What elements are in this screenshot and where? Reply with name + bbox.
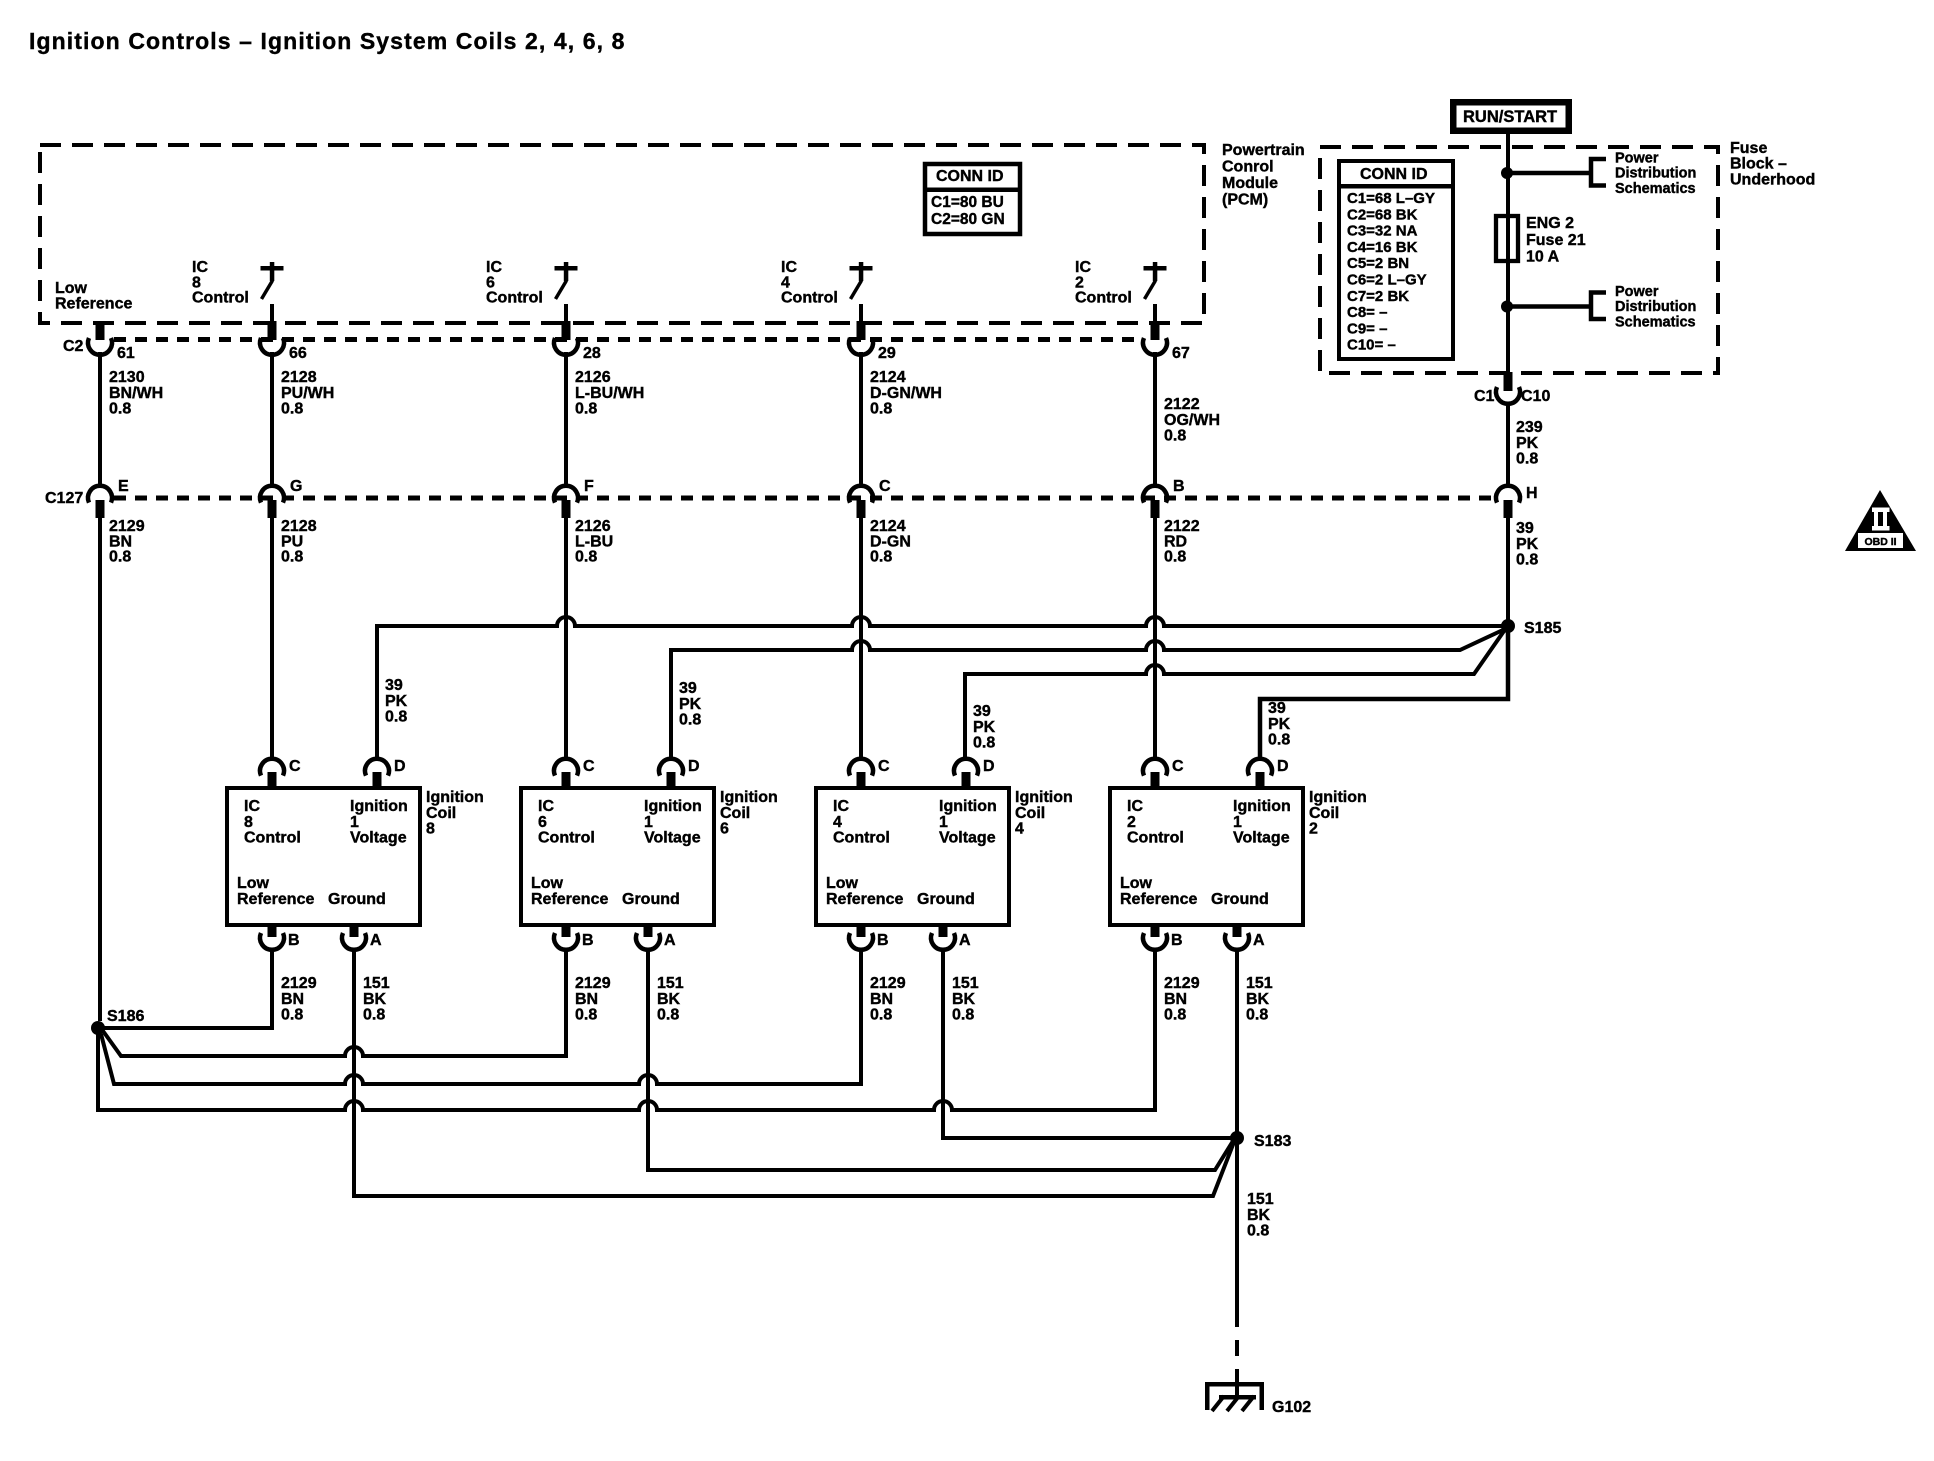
wire 39 PK to coil 6 D — [671, 629, 1505, 760]
svg-text:Control: Control — [244, 830, 301, 847]
svg-text:PK: PK — [1268, 716, 1291, 733]
svg-text:1: 1 — [1233, 814, 1242, 831]
svg-text:C2=80 GN: C2=80 GN — [931, 211, 1005, 228]
svg-text:Ground: Ground — [328, 891, 386, 908]
svg-text:CONN ID: CONN ID — [936, 168, 1004, 185]
svg-text:Ground: Ground — [622, 891, 680, 908]
svg-text:39: 39 — [973, 703, 991, 720]
svg-text:IC: IC — [833, 798, 849, 815]
svg-text:Power: Power — [1615, 151, 1659, 167]
wire — [1507, 304, 1589, 309]
svg-text:Reference: Reference — [55, 296, 132, 313]
svg-text:Control: Control — [538, 830, 595, 847]
svg-text:0.8: 0.8 — [1516, 552, 1538, 569]
svg-text:28: 28 — [583, 345, 601, 362]
svg-text:151: 151 — [363, 975, 390, 992]
svg-text:Low: Low — [237, 875, 270, 892]
svg-text:C: C — [1172, 758, 1184, 775]
svg-text:Distribution: Distribution — [1615, 166, 1696, 182]
svg-text:Module: Module — [1222, 175, 1278, 192]
ignition coil 8 box — [227, 788, 420, 925]
wire 2122 OG/WH 0.8 — [1153, 352, 1157, 487]
svg-text:C9= –: C9= – — [1347, 320, 1387, 337]
svg-text:PU/WH: PU/WH — [281, 385, 334, 402]
PCM module dashed outline — [40, 145, 1204, 323]
svg-text:S185: S185 — [1524, 620, 1561, 637]
svg-text:Coil: Coil — [720, 805, 750, 822]
svg-text:Control: Control — [192, 290, 249, 307]
svg-text:PK: PK — [679, 696, 702, 713]
svg-text:F: F — [584, 478, 594, 495]
svg-text:Ignition: Ignition — [1309, 789, 1367, 806]
pin D (coil 4) — [954, 759, 978, 776]
wire 2122 RD 0.8 — [1153, 518, 1157, 760]
svg-text:C3=32 NA: C3=32 NA — [1347, 223, 1418, 240]
svg-text:2128: 2128 — [281, 369, 317, 386]
svg-text:B: B — [288, 932, 300, 949]
svg-text:Low: Low — [55, 280, 88, 297]
wire 239 PK 0.8 — [1506, 402, 1510, 487]
svg-text:Reference: Reference — [1120, 891, 1197, 908]
connector C2 row — [114, 337, 1143, 342]
svg-text:Ignition: Ignition — [720, 789, 778, 806]
svg-text:IC: IC — [1127, 798, 1143, 815]
svg-text:(PCM): (PCM) — [1222, 192, 1268, 209]
svg-text:39: 39 — [385, 677, 403, 694]
svg-text:151: 151 — [657, 975, 684, 992]
pin A (coil 2) — [1233, 924, 1242, 937]
svg-text:Ground: Ground — [917, 891, 975, 908]
svg-text:A: A — [370, 932, 382, 949]
svg-text:0.8: 0.8 — [1164, 1007, 1186, 1024]
svg-text:D: D — [688, 758, 700, 775]
OBD II marker — [1845, 490, 1916, 551]
svg-text:Reference: Reference — [826, 891, 903, 908]
svg-text:0.8: 0.8 — [870, 401, 892, 418]
junction — [1501, 301, 1513, 313]
wire 2129 BN 0.8 — [98, 518, 102, 1021]
svg-text:A: A — [959, 932, 971, 949]
svg-text:Block –: Block – — [1730, 156, 1787, 173]
svg-text:C4=16 BK: C4=16 BK — [1347, 239, 1418, 256]
pin E (C127) — [88, 486, 112, 503]
svg-text:Voltage: Voltage — [350, 830, 407, 847]
svg-text:2129: 2129 — [870, 975, 906, 992]
pin B (coil 6) — [562, 924, 571, 937]
svg-text:Control: Control — [833, 830, 890, 847]
svg-text:Schematics: Schematics — [1615, 314, 1696, 330]
svg-text:Ignition: Ignition — [939, 798, 997, 815]
svg-text:4: 4 — [1015, 821, 1024, 838]
svg-text:0.8: 0.8 — [973, 735, 995, 752]
wire ground from coil 2 A — [1235, 948, 1239, 1327]
pin G (C127) — [260, 486, 284, 503]
svg-text:C6=2 L–GY: C6=2 L–GY — [1347, 272, 1427, 289]
svg-text:0.8: 0.8 — [870, 549, 892, 566]
svg-text:S186: S186 — [107, 1008, 144, 1025]
svg-text:RUN/START: RUN/START — [1463, 108, 1557, 126]
svg-text:Powertrain: Powertrain — [1222, 142, 1305, 159]
svg-text:C127: C127 — [45, 490, 83, 507]
svg-text:Ignition: Ignition — [644, 798, 702, 815]
svg-text:C10: C10 — [1521, 388, 1550, 405]
wire 2128 PU 0.8 — [270, 518, 274, 760]
wire 39 PK to coil 8 D — [377, 617, 1508, 760]
svg-text:4: 4 — [833, 814, 842, 831]
svg-text:2122: 2122 — [1164, 396, 1200, 413]
svg-text:0.8: 0.8 — [575, 401, 597, 418]
wire ground from coil 4 A — [943, 948, 1237, 1138]
wire low reference to coil 6 B — [103, 948, 566, 1056]
svg-text:0.8: 0.8 — [281, 401, 303, 418]
svg-text:39: 39 — [679, 680, 697, 697]
pin F (C127) — [554, 486, 578, 503]
svg-text:B: B — [1173, 478, 1185, 495]
fuse block dashed outline — [1320, 147, 1718, 373]
svg-text:67: 67 — [1172, 345, 1190, 362]
svg-text:IC: IC — [538, 798, 554, 815]
svg-text:Voltage: Voltage — [939, 830, 996, 847]
svg-text:0.8: 0.8 — [1516, 451, 1538, 468]
svg-text:BK: BK — [1247, 1207, 1271, 1224]
pin 28 (PCM C2) — [562, 321, 571, 340]
svg-text:D: D — [394, 758, 406, 775]
svg-text:0.8: 0.8 — [575, 1007, 597, 1024]
svg-text:C2: C2 — [63, 338, 84, 355]
pin B (coil 8) — [268, 924, 277, 937]
pin C (coil 4) — [849, 759, 873, 776]
wire ground from coil 8 A — [354, 948, 1234, 1196]
svg-text:0.8: 0.8 — [1246, 1007, 1268, 1024]
svg-text:G: G — [290, 478, 302, 495]
svg-text:PK: PK — [973, 719, 996, 736]
svg-text:BN/WH: BN/WH — [109, 385, 163, 402]
svg-text:0.8: 0.8 — [281, 1007, 303, 1024]
svg-text:C2=68 BK: C2=68 BK — [1347, 206, 1418, 223]
svg-text:B: B — [582, 932, 594, 949]
connector C1/C10 — [1504, 372, 1513, 391]
wire 2124 D-GN 0.8 — [859, 518, 863, 760]
svg-text:Reference: Reference — [531, 891, 608, 908]
connector C127 row — [114, 496, 1497, 501]
svg-text:B: B — [877, 932, 889, 949]
svg-text:39: 39 — [1268, 700, 1286, 717]
svg-text:H: H — [1526, 485, 1538, 502]
svg-text:C10= –: C10= – — [1347, 337, 1396, 354]
svg-text:2129: 2129 — [281, 975, 317, 992]
svg-text:8: 8 — [426, 821, 435, 838]
svg-text:S183: S183 — [1254, 1133, 1291, 1150]
svg-text:Reference: Reference — [237, 891, 314, 908]
wire — [1153, 304, 1157, 322]
svg-text:BK: BK — [952, 991, 976, 1008]
svg-text:2130: 2130 — [109, 369, 145, 386]
wire (harness break) — [1235, 1340, 1239, 1356]
svg-text:BK: BK — [363, 991, 387, 1008]
svg-text:Ignition: Ignition — [1015, 789, 1073, 806]
wire — [270, 304, 274, 322]
wire — [1507, 171, 1589, 176]
splice S185 — [1501, 619, 1515, 633]
svg-text:1: 1 — [939, 814, 948, 831]
svg-text:D-GN/WH: D-GN/WH — [870, 385, 942, 402]
svg-text:Ignition: Ignition — [350, 798, 408, 815]
svg-text:0.8: 0.8 — [363, 1007, 385, 1024]
pin D (coil 8) — [365, 759, 389, 776]
svg-text:Conrol: Conrol — [1222, 159, 1274, 176]
svg-text:PK: PK — [385, 693, 408, 710]
svg-text:2: 2 — [1309, 821, 1318, 838]
svg-text:Voltage: Voltage — [644, 830, 701, 847]
svg-text:Low: Low — [531, 875, 564, 892]
svg-text:Power: Power — [1615, 284, 1659, 300]
ground G102 — [1205, 1382, 1264, 1387]
splice S183 — [1230, 1131, 1244, 1145]
svg-text:2: 2 — [1127, 814, 1136, 831]
svg-text:2129: 2129 — [1164, 975, 1200, 992]
svg-text:E: E — [118, 478, 129, 495]
svg-text:0.8: 0.8 — [870, 1007, 892, 1024]
svg-text:0.8: 0.8 — [679, 712, 701, 729]
svg-text:Ignition Controls – Ignition S: Ignition Controls – Ignition System Coil… — [29, 28, 626, 54]
pin A (coil 8) — [350, 924, 359, 937]
svg-text:BN: BN — [1164, 991, 1187, 1008]
svg-text:Ignition: Ignition — [1233, 798, 1291, 815]
pin C (coil 8) — [260, 759, 284, 776]
svg-text:151: 151 — [1247, 1191, 1274, 1208]
svg-text:C7=2 BK: C7=2 BK — [1347, 288, 1409, 305]
svg-text:C: C — [583, 758, 595, 775]
off-page connector Power Distribution Schematics (upper) — [1591, 159, 1606, 186]
svg-text:151: 151 — [1246, 975, 1273, 992]
wire low reference to coil 4 B — [101, 948, 861, 1084]
svg-text:IC: IC — [244, 798, 260, 815]
wire RUN/START feed — [1506, 134, 1510, 372]
wire low reference to coil 8 B — [98, 948, 272, 1028]
svg-text:Control: Control — [1127, 830, 1184, 847]
svg-text:C: C — [289, 758, 301, 775]
svg-text:A: A — [1253, 932, 1265, 949]
svg-text:66: 66 — [289, 345, 307, 362]
svg-text:Low: Low — [1120, 875, 1153, 892]
pin A (coil 4) — [939, 924, 948, 937]
svg-text:6: 6 — [720, 821, 729, 838]
svg-text:Low: Low — [826, 875, 859, 892]
svg-text:BN: BN — [575, 991, 598, 1008]
pin D (coil 2) — [1248, 759, 1272, 776]
svg-text:8: 8 — [244, 814, 253, 831]
svg-text:239: 239 — [1516, 419, 1543, 436]
wire 2126 L-BU 0.8 — [564, 518, 568, 760]
svg-text:C1: C1 — [1474, 388, 1495, 405]
off-page connector Power Distribution Schematics (lower) — [1591, 293, 1606, 320]
ignition coil 2 box — [1110, 788, 1303, 925]
svg-text:2124: 2124 — [870, 369, 906, 386]
pin C (coil 2) — [1143, 759, 1167, 776]
svg-text:B: B — [1171, 932, 1183, 949]
svg-text:BK: BK — [657, 991, 681, 1008]
svg-text:ENG 2: ENG 2 — [1526, 215, 1574, 232]
svg-text:0.8: 0.8 — [109, 549, 131, 566]
svg-text:Distribution: Distribution — [1615, 299, 1696, 315]
wire — [564, 304, 568, 322]
svg-text:Fuse 21: Fuse 21 — [1526, 232, 1586, 249]
pin H (C127) — [1496, 486, 1520, 503]
svg-text:Coil: Coil — [1309, 805, 1339, 822]
PCM CONN ID table — [925, 164, 1020, 234]
svg-text:2129: 2129 — [575, 975, 611, 992]
svg-text:0.8: 0.8 — [385, 709, 407, 726]
wire 2130 BN/WH 0.8 — [98, 352, 102, 487]
svg-text:Control: Control — [486, 290, 543, 307]
svg-text:C5=2 BN: C5=2 BN — [1347, 255, 1409, 272]
svg-text:0.8: 0.8 — [952, 1007, 974, 1024]
svg-text:C1=80 BU: C1=80 BU — [931, 194, 1004, 211]
svg-text:Coil: Coil — [426, 805, 456, 822]
svg-text:Underhood: Underhood — [1730, 171, 1815, 188]
svg-text:0.8: 0.8 — [1247, 1223, 1269, 1240]
svg-text:29: 29 — [878, 345, 896, 362]
pin C (C127) — [849, 486, 873, 503]
svg-text:C: C — [878, 758, 890, 775]
svg-text:Schematics: Schematics — [1615, 181, 1696, 197]
svg-text:BN: BN — [281, 991, 304, 1008]
svg-text:L-BU/WH: L-BU/WH — [575, 385, 644, 402]
svg-text:BN: BN — [870, 991, 893, 1008]
wire 2124 D-GN/WH 0.8 — [859, 352, 863, 487]
svg-text:PK: PK — [1516, 536, 1539, 553]
svg-text:1: 1 — [350, 814, 359, 831]
junction — [1501, 167, 1513, 179]
svg-text:Fuse: Fuse — [1730, 140, 1767, 157]
svg-text:C1=68 L–GY: C1=68 L–GY — [1347, 190, 1435, 207]
svg-text:61: 61 — [117, 345, 135, 362]
pin 29 (PCM C2) — [857, 321, 866, 340]
svg-text:0.8: 0.8 — [657, 1007, 679, 1024]
svg-text:BK: BK — [1246, 991, 1270, 1008]
svg-text:Ignition: Ignition — [426, 789, 484, 806]
svg-text:C: C — [879, 478, 891, 495]
wire 39 PK to coil 4 D — [965, 631, 1504, 760]
pin B (coil 2) — [1151, 924, 1160, 937]
svg-text:0.8: 0.8 — [1164, 549, 1186, 566]
svg-text:0.8: 0.8 — [575, 549, 597, 566]
svg-text:Control: Control — [1075, 290, 1132, 307]
svg-text:Control: Control — [781, 290, 838, 307]
svg-text:CONN ID: CONN ID — [1360, 166, 1428, 183]
svg-text:0.8: 0.8 — [1164, 428, 1186, 445]
pin 67 (PCM C2) — [1151, 321, 1160, 340]
svg-text:39: 39 — [1516, 520, 1534, 537]
svg-text:G102: G102 — [1272, 1399, 1311, 1416]
svg-text:1: 1 — [644, 814, 653, 831]
svg-text:6: 6 — [538, 814, 547, 831]
pin D (coil 6) — [659, 759, 683, 776]
svg-text:PK: PK — [1516, 435, 1539, 452]
wire — [859, 304, 863, 322]
fuse block CONN ID table — [1339, 161, 1453, 359]
wire 2128 PU/WH 0.8 — [270, 352, 274, 487]
splice S186 — [91, 1021, 105, 1035]
RUN/START power tap — [1450, 99, 1572, 134]
svg-text:0.8: 0.8 — [1268, 732, 1290, 749]
svg-text:A: A — [664, 932, 676, 949]
svg-text:Coil: Coil — [1015, 805, 1045, 822]
ignition coil 4 box — [816, 788, 1009, 925]
svg-text:0.8: 0.8 — [109, 401, 131, 418]
pin 66 (PCM C2) — [268, 321, 277, 340]
svg-text:2126: 2126 — [575, 369, 611, 386]
wire ground from coil 6 A — [648, 948, 1233, 1170]
svg-text:C8= –: C8= – — [1347, 304, 1387, 321]
pin 61 (PCM C2) — [96, 321, 105, 340]
svg-text:D: D — [983, 758, 995, 775]
pin A (coil 6) — [644, 924, 653, 937]
svg-text:OG/WH: OG/WH — [1164, 412, 1220, 429]
pin C (coil 6) — [554, 759, 578, 776]
svg-text:151: 151 — [952, 975, 979, 992]
ignition coil 6 box — [521, 788, 714, 925]
svg-text:Ground: Ground — [1211, 891, 1269, 908]
svg-text:Voltage: Voltage — [1233, 830, 1290, 847]
svg-text:OBD II: OBD II — [1864, 536, 1896, 548]
wire 39 PK 0.8 — [1506, 518, 1510, 620]
svg-text:0.8: 0.8 — [281, 549, 303, 566]
wire low reference to coil 2 B — [98, 948, 1155, 1110]
fuse ENG 2 Fuse 21 10 A — [1496, 216, 1518, 261]
pin B (C127) — [1143, 486, 1167, 503]
svg-text:10 A: 10 A — [1526, 249, 1560, 266]
wire 2126 L-BU/WH 0.8 — [564, 352, 568, 487]
pin B (coil 4) — [857, 924, 866, 937]
svg-text:D: D — [1277, 758, 1289, 775]
wire 39 PK to coil 2 D — [1260, 626, 1508, 760]
